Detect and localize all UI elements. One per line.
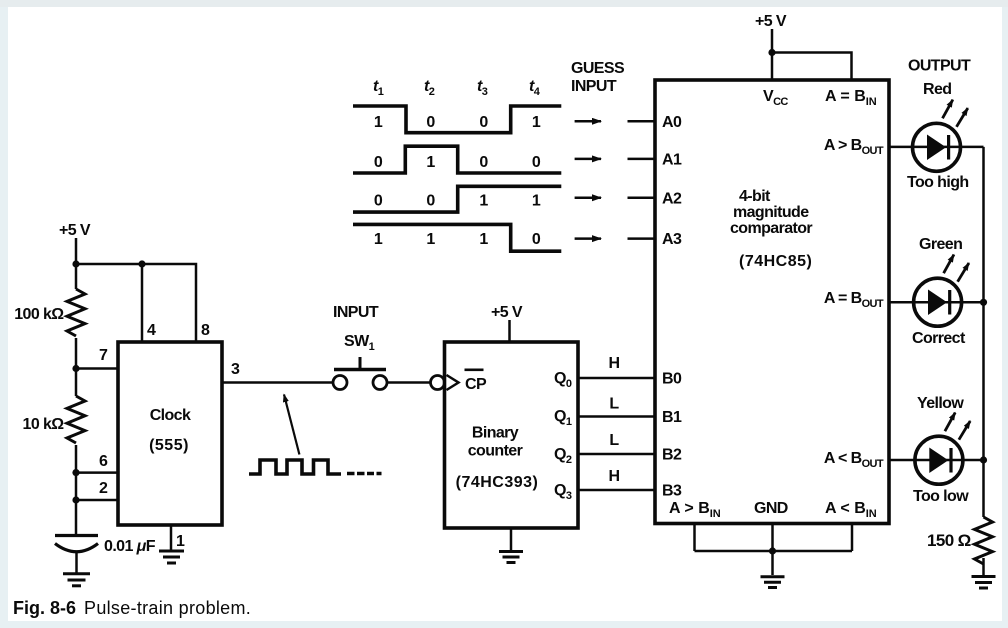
wire Q1-B1 (578, 415, 655, 418)
capacitor C1 bottom plate (55, 544, 98, 552)
svg-text:A1: A1 (662, 152, 682, 169)
svg-text:A2: A2 (662, 190, 682, 207)
waveform A0 trace (1 0 0 1) (353, 106, 561, 133)
waveform A1 digits (374, 154, 541, 171)
wire bottom gnd bus (695, 550, 853, 553)
wire stub A0 (628, 120, 656, 123)
wire switch to CP (388, 381, 432, 384)
wire Q2-B2 (578, 453, 655, 456)
svg-text:Too high: Too high (907, 174, 969, 191)
LED D3 arrows (945, 413, 970, 440)
svg-text:(74HC393): (74HC393) (456, 474, 539, 491)
pulse train icon (249, 460, 341, 474)
LED D3 yellow symbol (915, 436, 963, 484)
guess arrow A3 (575, 237, 601, 240)
capacitor C1 top plate (55, 534, 98, 537)
wire Vcc to A=Bin top (772, 53, 852, 81)
resistor R3 150 ohm (975, 517, 993, 564)
switch SW1 bar (334, 368, 386, 372)
wire pin6 (76, 471, 118, 474)
LED D1 red symbol (913, 123, 961, 171)
wire pin3 to switch (222, 381, 332, 384)
switch SW1 left contact (333, 376, 347, 390)
svg-text:GUESS: GUESS (571, 60, 625, 77)
svg-text:1: 1 (374, 231, 383, 248)
wire cap to ground (75, 551, 78, 573)
CP overline (465, 369, 484, 372)
node top net dot2 (138, 260, 145, 267)
resistor R1 100k (67, 289, 85, 336)
svg-text:INPUT: INPUT (333, 304, 379, 321)
wire counter gnd (510, 528, 513, 551)
svg-text:OUTPUT: OUTPUT (908, 58, 971, 75)
wire +5V to counter (508, 320, 511, 342)
svg-text:1: 1 (374, 114, 383, 131)
svg-text:Clock: Clock (150, 407, 191, 424)
guess arrow A1 (575, 158, 601, 161)
LED D2 arrows (944, 255, 969, 282)
counter U1 box (74HC393) (445, 342, 579, 528)
svg-text:1: 1 (532, 114, 541, 131)
svg-text:B1: B1 (662, 409, 682, 426)
svg-text:A3: A3 (662, 231, 682, 248)
svg-text:7: 7 (99, 347, 108, 364)
waveform A2 digits (374, 193, 541, 210)
wire Q3-B3 (578, 489, 655, 492)
resistor R2 10k (67, 396, 85, 443)
ground capacitor (63, 574, 90, 586)
svg-text:+5 V: +5 V (755, 13, 787, 30)
wire Q0-B0 (578, 377, 655, 380)
waveform A2 trace (0 0 1 1) (353, 186, 561, 212)
svg-text:150 Ω: 150 Ω (927, 531, 971, 550)
svg-text:6: 6 (99, 453, 108, 470)
svg-text:1: 1 (426, 154, 435, 171)
svg-text:0: 0 (532, 231, 541, 248)
svg-text:L: L (609, 432, 619, 449)
guess arrow A2 (575, 196, 601, 199)
svg-text:0: 0 (426, 114, 435, 131)
wire right rail (982, 147, 985, 517)
svg-text:Correct: Correct (912, 330, 966, 347)
svg-text:0: 0 (426, 193, 435, 210)
ground counter (499, 552, 523, 563)
wire top net to pins 4,8 (76, 264, 196, 342)
svg-text:H: H (609, 355, 620, 372)
svg-text:B3: B3 (662, 483, 682, 500)
node pin2 dot (72, 496, 79, 503)
svg-text:100 kΩ: 100 kΩ (14, 306, 64, 323)
comparator U2 box (74HC85) (655, 80, 889, 524)
guess arrow A0 (575, 120, 601, 123)
wire +5V to Vcc (771, 29, 774, 80)
node top net dot1 (72, 260, 79, 267)
svg-text:0: 0 (532, 154, 541, 171)
CP input bubble (431, 376, 445, 390)
svg-text:Fig. 8-6 Pulse-train problem.: Fig. 8-6 Pulse-train problem. (13, 598, 251, 618)
wire stub A3 (628, 237, 656, 240)
label H L L H (609, 355, 620, 485)
wire stub A2 (628, 196, 656, 199)
svg-text:2: 2 (99, 480, 108, 497)
svg-text:1: 1 (426, 231, 435, 248)
CP edge triangle (447, 375, 459, 390)
arrow pulse callout (284, 395, 299, 455)
svg-text:Green: Green (919, 236, 962, 253)
pulse icon dashes (347, 472, 382, 476)
waveform A3 digits (374, 231, 541, 248)
svg-text:1: 1 (532, 193, 541, 210)
node pin6 dot (72, 469, 79, 476)
svg-text:0: 0 (479, 154, 488, 171)
wire A>Bin bottom stub (693, 524, 696, 552)
svg-text:(555): (555) (149, 437, 189, 454)
ground comparator (761, 577, 785, 588)
waveform A3 trace (1 1 1 0) (353, 224, 561, 251)
ground 150 ohm (972, 577, 996, 589)
svg-text:1: 1 (479, 231, 488, 248)
node green rail dot (980, 299, 987, 306)
wire GND pin down (771, 524, 774, 576)
wire pin2 (76, 499, 118, 502)
ground pin1 (159, 551, 184, 563)
svg-text:0: 0 (374, 193, 383, 210)
svg-text:1: 1 (479, 193, 488, 210)
svg-text:Too low: Too low (913, 488, 969, 505)
node junction GND (769, 547, 776, 554)
svg-text:4: 4 (147, 322, 156, 339)
svg-text:H: H (609, 468, 620, 485)
LED D2 green wire (889, 301, 984, 304)
svg-text:counter: counter (468, 443, 523, 460)
svg-text:3: 3 (231, 361, 240, 378)
waveform A0 digits (374, 114, 541, 131)
svg-text:+5 V: +5 V (59, 222, 91, 239)
LED D1 arrows (943, 100, 968, 127)
wire pin7 (76, 367, 118, 370)
svg-text:Red: Red (923, 81, 951, 98)
svg-text:8: 8 (201, 322, 210, 339)
svg-text:10 kΩ: 10 kΩ (23, 416, 65, 433)
svg-text:A0: A0 (662, 114, 682, 131)
svg-text:CP: CP (465, 376, 487, 393)
svg-text:0: 0 (479, 114, 488, 131)
svg-text:B0: B0 (662, 371, 682, 388)
node junction Vcc (768, 49, 775, 56)
wire stub A1 (628, 158, 656, 161)
svg-text:magnitude: magnitude (733, 204, 809, 221)
svg-text:1: 1 (176, 533, 185, 550)
svg-text:L: L (609, 396, 619, 413)
wire A<Bin bottom stub (851, 524, 854, 552)
node pin7 dot (72, 365, 79, 372)
wire pin1 (170, 525, 173, 550)
svg-text:(74HC85): (74HC85) (739, 253, 812, 270)
waveform A1 trace (0 1 0 0) (353, 146, 561, 173)
LED D1 red wire (889, 146, 984, 149)
svg-text:GND: GND (754, 500, 788, 517)
svg-text:B2: B2 (662, 447, 682, 464)
svg-text:4-bit: 4-bit (739, 188, 771, 205)
wire resistor to ground (982, 558, 985, 575)
svg-text:INPUT: INPUT (571, 78, 617, 95)
svg-text:0: 0 (374, 154, 383, 171)
LED D3 yellow wire (889, 459, 984, 462)
svg-text:0.01 μF: 0.01 μF (104, 538, 156, 555)
svg-text:+5 V: +5 V (491, 304, 523, 321)
switch SW1 stem (359, 357, 362, 368)
svg-text:comparator: comparator (730, 220, 812, 237)
node yellow rail dot (980, 456, 987, 463)
switch SW1 right contact (373, 376, 387, 390)
clock U3 555 box (118, 342, 222, 525)
LED D2 green symbol (914, 278, 962, 326)
555 +5V rail wire (75, 238, 78, 536)
svg-text:Binary: Binary (472, 425, 519, 442)
svg-text:Yellow: Yellow (917, 395, 964, 412)
